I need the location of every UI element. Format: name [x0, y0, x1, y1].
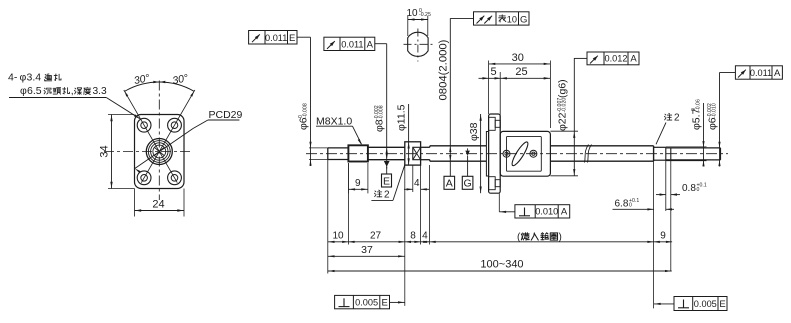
svg-text:0.011: 0.011	[750, 68, 772, 78]
svg-text:0.012: 0.012	[605, 54, 628, 64]
set screw left	[503, 150, 510, 157]
svg-text:φ11.5: φ11.5	[396, 104, 408, 131]
phi6 left text	[298, 103, 310, 130]
fcf5 leader	[720, 73, 736, 135]
svg-text:27: 27	[370, 231, 382, 242]
svg-text:φ38: φ38	[468, 122, 480, 141]
phi38 text	[468, 122, 480, 141]
phi5.7 text	[691, 99, 703, 130]
svg-text:25: 25	[515, 66, 527, 78]
svg-text:φ6: φ6	[298, 117, 310, 130]
svg-text:4: 4	[414, 178, 420, 189]
dim 24 extension lines	[135, 189, 185, 217]
phi5.7 ext lines	[666, 147, 707, 161]
svg-text:3.3: 3.3	[93, 86, 107, 97]
dim flat4	[404, 178, 429, 191]
30deg label left	[133, 72, 151, 87]
svg-text:A: A	[446, 178, 453, 190]
flange top bolt hole section	[489, 117, 501, 130]
svg-text:G: G	[464, 178, 472, 190]
phi8 text	[374, 105, 386, 132]
svg-text:6.8: 6.8	[615, 198, 629, 209]
svg-text:6.5: 6.5	[27, 85, 42, 97]
section circle centerlines	[404, 29, 433, 62]
dim hardening range	[430, 232, 654, 243]
phi6 left journal	[328, 148, 349, 160]
note2 right text	[664, 113, 680, 124]
ext phi6R start	[670, 197, 672, 272]
fcf5 circular-runout 0.011 A	[735, 66, 782, 79]
fcf1 leader	[297, 37, 311, 131]
dim 34 extension lines	[108, 115, 135, 189]
flat square with cross	[413, 147, 421, 159]
svg-text:-0.010: -0.010	[711, 103, 717, 118]
svg-text:E: E	[289, 33, 295, 44]
30deg angle arc	[125, 81, 195, 97]
ext screw end	[653, 161, 655, 308]
flange front view outline	[135, 115, 185, 189]
fcf4 circular-runout 0.012 A	[587, 52, 639, 65]
svg-text:A: A	[367, 40, 374, 51]
fcf1 circular-runout 0.011 E	[249, 31, 297, 45]
svg-text:3.4: 3.4	[27, 72, 42, 84]
svg-text:,: ,	[71, 85, 74, 97]
svg-text:0.005: 0.005	[694, 299, 717, 309]
ext left end	[327, 160, 329, 274]
fcf4 leader	[574, 57, 587, 59]
svg-text:(g6): (g6)	[557, 79, 569, 98]
dim 6.8 ext	[665, 197, 667, 211]
note phi6.5 counterbore depth3.3	[20, 85, 107, 97]
svg-text:M8X1.0: M8X1.0	[316, 116, 352, 128]
phi11.5 collar	[405, 142, 421, 165]
svg-text:0.011: 0.011	[341, 40, 363, 50]
svg-text:PCD29: PCD29	[209, 109, 243, 121]
dim 4 bottom	[421, 231, 430, 243]
dim 34 line	[110, 115, 112, 189]
fcf3 leader	[450, 18, 473, 176]
ball return tube	[510, 140, 531, 167]
svg-text:34: 34	[99, 145, 111, 157]
set screw right	[530, 150, 537, 157]
svg-text:37: 37	[361, 244, 373, 256]
fcf perp 0.010 A leader	[499, 193, 515, 213]
dim 10 flats ext	[408, 16, 428, 36]
svg-text:2: 2	[674, 113, 680, 124]
svg-text:5: 5	[490, 66, 496, 78]
svg-text:φ8: φ8	[374, 119, 386, 132]
ext screw start	[429, 165, 431, 245]
screw od arrows on leader	[449, 146, 451, 161]
datum E box	[382, 174, 392, 187]
screw shaft outline left of nut	[430, 146, 487, 161]
svg-text:30: 30	[512, 52, 524, 64]
flange hole radial centerlines	[124, 90, 195, 183]
main centerline	[306, 153, 728, 155]
svg-text:0: 0	[697, 187, 700, 193]
note leader	[9, 98, 140, 119]
phi11.5 text	[396, 104, 408, 131]
svg-text:0.011: 0.011	[265, 33, 287, 43]
neck section	[421, 146, 430, 161]
fcf perp 0.005 E right	[674, 297, 727, 311]
dim 0.8	[656, 183, 707, 196]
circlip groove	[666, 147, 671, 160]
M8 thread section	[348, 145, 368, 161]
dim 10 flats	[406, 8, 431, 21]
svg-text:): )	[559, 232, 562, 243]
PCD29 text	[209, 109, 243, 121]
svg-text:E: E	[383, 175, 390, 187]
fcf perp 0.010 A	[515, 205, 570, 218]
fcf perp 0.005 E left leader	[390, 301, 405, 303]
dim 100-340	[328, 259, 672, 273]
svg-text:0804(2.000): 0804(2.000)	[438, 39, 450, 100]
svg-text:100~340: 100~340	[480, 259, 523, 271]
svg-text:10: 10	[332, 231, 344, 242]
svg-text:-0.020: -0.020	[561, 98, 567, 113]
dim 10	[328, 231, 349, 243]
svg-text:0.8: 0.8	[682, 183, 696, 194]
30deg label right	[171, 72, 189, 87]
dim 9 left ext	[348, 163, 368, 193]
svg-text:8: 8	[410, 231, 416, 242]
svg-text:10: 10	[406, 8, 418, 19]
svg-text:10: 10	[507, 14, 517, 24]
svg-text:-0.25: -0.25	[419, 12, 431, 18]
dim 24 line	[135, 209, 185, 211]
svg-text:9: 9	[355, 178, 361, 189]
note2 right leader	[656, 123, 666, 145]
phi6 end extension lines	[309, 148, 328, 160]
phi8 dim arrows	[386, 134, 388, 169]
svg-text:4-: 4-	[8, 72, 18, 84]
dim 5 and 25	[479, 66, 551, 80]
svg-text:0.005: 0.005	[355, 298, 378, 308]
dim 34 text	[99, 145, 111, 157]
flange bolt holes 4x counterbored	[137, 118, 181, 184]
datum A box	[444, 176, 455, 189]
screw shaft outline right of nut	[550, 146, 653, 161]
phi6 right text	[707, 103, 719, 130]
fcf2 leader	[375, 44, 387, 134]
dim 0.8 ext	[666, 160, 671, 197]
svg-text:A: A	[630, 54, 637, 65]
dim 9 right	[654, 231, 673, 243]
fcf3 total-runout tab10 G	[474, 12, 530, 25]
nut body	[500, 131, 550, 176]
svg-text:E: E	[382, 298, 388, 309]
dim 24 text	[152, 199, 164, 211]
fcf perp 0.005 E right leader	[654, 303, 674, 305]
svg-text:2: 2	[384, 190, 390, 201]
phi5.7 journal	[654, 147, 666, 160]
svg-text:φ: φ	[20, 85, 27, 97]
svg-text:φ: φ	[20, 72, 27, 84]
note2 left leader	[371, 165, 404, 201]
M8 leader	[316, 126, 362, 145]
dim 30	[489, 52, 551, 65]
fcf2 circular-runout 0.011 A	[324, 37, 375, 50]
nut flange plate	[489, 114, 501, 193]
screw break symbol	[585, 145, 592, 163]
svg-text:0.010: 0.010	[535, 207, 558, 217]
flange bottom bolt hole section	[489, 177, 501, 190]
flange center thread cross	[155, 148, 164, 156]
dim 27	[348, 231, 404, 243]
section circle with flats	[408, 32, 428, 56]
M8X1.0 text	[316, 116, 352, 128]
svg-text:G: G	[520, 14, 527, 25]
svg-text:-0.06: -0.06	[695, 99, 701, 111]
dim 6.8	[613, 198, 675, 211]
ext collar left	[404, 165, 406, 306]
note2 left text	[374, 190, 390, 201]
svg-text:φ22: φ22	[557, 112, 569, 131]
dim 30-5-25 ext	[489, 61, 551, 132]
svg-text:0: 0	[629, 202, 632, 208]
datum G box	[462, 176, 473, 189]
svg-text:A: A	[774, 68, 781, 79]
nut flat face	[507, 136, 542, 171]
PCD29 leader	[135, 120, 240, 173]
svg-text:φ6: φ6	[707, 117, 719, 130]
phi6 right journal	[666, 148, 721, 160]
nut pilot boss	[486, 132, 488, 177]
phi11.5 dim arrows	[408, 104, 410, 165]
svg-text:24: 24	[152, 199, 164, 211]
phi8 section	[368, 147, 405, 159]
ext M8 start	[347, 163, 349, 245]
svg-text:9: 9	[660, 231, 666, 242]
flange center circles (screw end view)	[146, 139, 172, 165]
phi5.7 dim arrows	[702, 103, 704, 167]
svg-text:A: A	[561, 207, 568, 218]
dim 8	[405, 231, 421, 243]
dim 9 left	[348, 178, 368, 191]
phi6 right dim arrows	[718, 134, 720, 167]
dim 37	[328, 244, 405, 257]
svg-text:E: E	[719, 299, 725, 310]
dim flat4 ext	[413, 165, 421, 192]
flange vertical centerline	[158, 81, 160, 201]
datum G leader	[465, 148, 470, 176]
flange horizontal centerline	[104, 151, 193, 153]
svg-text:-0.008: -0.008	[379, 105, 385, 120]
phi22 dim line	[573, 58, 575, 176]
phi22 text	[557, 79, 569, 131]
svg-text:-0.008: -0.008	[302, 103, 308, 118]
phi38 dim line	[480, 114, 482, 193]
phi6 left dim arrows	[309, 131, 311, 166]
0804 designation text	[438, 39, 450, 100]
datum E triangle	[384, 161, 390, 174]
svg-text:4: 4	[422, 231, 428, 242]
note 4-phi3.4 through-hole	[8, 72, 61, 84]
phi22 ext	[550, 131, 578, 176]
fcf perp 0.005 E left	[335, 295, 390, 308]
ext collar right	[420, 192, 422, 245]
